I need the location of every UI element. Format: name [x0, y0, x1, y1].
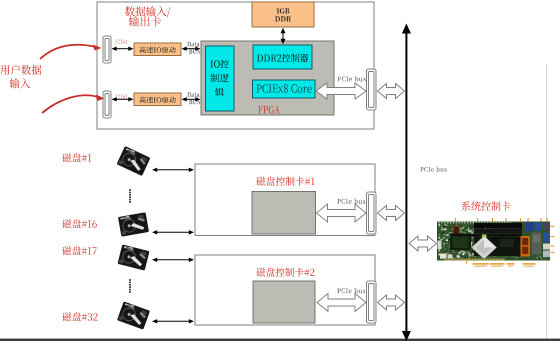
label: PCIe bus card2	[337, 288, 365, 293]
node: ellipsis disks 17-32	[129, 279, 131, 293]
node: high speed IO driver 1	[134, 43, 181, 56]
label: IO控	[211, 60, 229, 69]
label: BUS 1	[189, 49, 200, 54]
connector J3 right top card	[367, 69, 377, 110]
wire: driver2 to FPGA	[182, 97, 201, 101]
label: 32bit lower	[115, 94, 128, 99]
label: 磁盘#1	[62, 153, 91, 162]
node: DDR2 controller	[253, 45, 312, 69]
wire: chip1 to connector J4	[317, 204, 367, 222]
node: high speed IO driver 2	[134, 93, 181, 106]
node: IO control logic	[206, 46, 235, 111]
label: 高速IO驱动 1	[139, 47, 175, 54]
label: 用户数据	[0, 65, 41, 75]
wire: red curved arrow 1	[40, 45, 102, 60]
label: 磁盘#16	[62, 219, 97, 228]
wire: PCIEx8 to connector J3	[316, 83, 366, 99]
label: PCIe bus vertical	[420, 167, 446, 172]
wire: red curved arrow 2	[42, 95, 105, 114]
node: 1GB DDR memory	[252, 2, 314, 27]
label: Data 2	[187, 92, 199, 97]
wire: connector J5 to PCIe bus	[378, 295, 405, 310]
wire: PCIe bus to system card	[409, 236, 437, 251]
wire: bottom frame line	[0, 339, 560, 341]
label: 磁盘#17	[62, 246, 96, 255]
label: DDR	[275, 16, 291, 21]
label: PCIe bus card1	[337, 198, 365, 203]
node: FPGA block	[201, 41, 334, 115]
wire: DDR to DDR2 controller	[281, 28, 286, 45]
wire: disk17 to card2	[152, 258, 194, 262]
label: PCIEx8 Core	[257, 84, 312, 92]
connector J5 card2	[367, 281, 377, 323]
node: bridge chip 2	[253, 281, 315, 323]
wire: disk16 to card1	[152, 230, 194, 234]
node: disk icon 17	[117, 244, 149, 270]
connector J4 card1	[367, 192, 377, 234]
wire: conn2 to driver2	[112, 97, 134, 101]
label: 制逻	[210, 74, 228, 83]
label: 32bit upper	[115, 39, 128, 44]
label: 磁盘#32	[62, 312, 97, 321]
label: BUS 2	[189, 100, 200, 105]
wire: conn1 to driver1	[112, 47, 134, 51]
label: DDR2控制器	[257, 54, 308, 63]
wire: faint right frame line	[546, 64, 548, 339]
node: disk icon 16	[118, 212, 149, 237]
node: disk icon 32	[117, 301, 150, 329]
label: 1GB	[277, 8, 290, 13]
label: PCIe bus top	[338, 76, 366, 81]
label: 系统控制卡	[462, 201, 511, 211]
label: Data 1	[187, 42, 199, 47]
label: card title line2 输出卡	[129, 16, 161, 26]
label: card title line1 数据输入/	[125, 6, 170, 17]
label: 高速IO驱动 2	[139, 97, 175, 104]
label: 输入	[10, 78, 30, 88]
label: 磁盘控制卡#2	[256, 268, 314, 277]
node: bridge chip 1	[252, 192, 316, 235]
connector J2 left	[103, 91, 111, 118]
label: 辑	[215, 88, 224, 97]
connector J1 left	[103, 36, 111, 63]
label: 磁盘控制卡#1	[256, 177, 314, 186]
node: disk controller card 2	[195, 255, 375, 325]
node: system controller PCB photo	[437, 218, 554, 267]
wire: disk32 to card2	[152, 319, 194, 323]
wire: connector J3 to PCIe bus	[378, 84, 405, 99]
wire: chip2 to connector J5	[317, 294, 366, 312]
node: PCIEx8 core	[253, 80, 316, 98]
wire: connector J4 to PCIe bus	[378, 206, 405, 221]
wire: driver1 to FPGA	[182, 47, 201, 51]
node: data IO card box	[97, 2, 374, 129]
wire: disk1 to card1	[152, 168, 194, 172]
wire: PCIe bus vertical line	[402, 24, 411, 342]
node: ellipsis disks 1-16	[129, 189, 131, 203]
node: disk icon 1	[117, 146, 151, 176]
label: FPGA	[258, 106, 280, 114]
node: disk controller card 1	[195, 164, 375, 236]
